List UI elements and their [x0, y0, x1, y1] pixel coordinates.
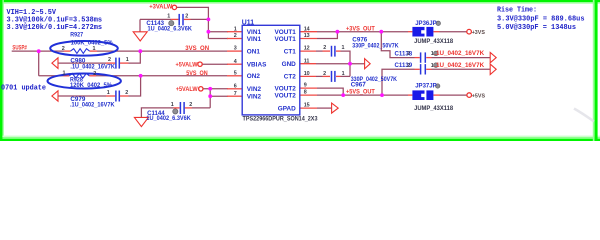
svg-text:JUMP_43X118: JUMP_43X118: [414, 105, 453, 112]
svg-text:1: 1: [431, 51, 434, 57]
svg-text:12: 12: [304, 46, 310, 52]
svg-text:2: 2: [407, 63, 410, 69]
svg-text:4: 4: [234, 59, 237, 65]
svg-text:+3VS: +3VS: [472, 30, 485, 36]
svg-text:2: 2: [323, 71, 326, 77]
svg-text:5VS_ON: 5VS_ON: [186, 70, 208, 77]
svg-text:ON2: ON2: [247, 73, 261, 80]
svg-text:0701 update: 0701 update: [1, 84, 46, 92]
svg-text:1: 1: [171, 102, 174, 108]
svg-text:10: 10: [304, 71, 310, 77]
svg-text:R927: R927: [70, 32, 83, 39]
svg-text:Rise Time:: Rise Time:: [497, 7, 537, 15]
svg-text:+5VS_OUT: +5VS_OUT: [346, 89, 375, 96]
svg-text:3.3V@330pF = 889.68us: 3.3V@330pF = 889.68us: [497, 15, 585, 23]
svg-text:1: 1: [107, 90, 110, 96]
svg-text:2: 2: [125, 90, 128, 96]
svg-text:VIN2: VIN2: [247, 86, 262, 93]
svg-text:1: 1: [63, 71, 66, 77]
svg-text:VOUT1: VOUT1: [274, 36, 296, 43]
svg-text:7: 7: [234, 91, 237, 97]
svg-text:15: 15: [304, 103, 310, 109]
svg-text:3.3V@120k/0.1uF=4.272ms: 3.3V@120k/0.1uF=4.272ms: [7, 24, 103, 32]
svg-text:+3VS_OUT: +3VS_OUT: [346, 26, 375, 33]
svg-text:VIN2: VIN2: [247, 94, 262, 101]
svg-text:13: 13: [304, 33, 310, 39]
svg-text:1: 1: [234, 26, 237, 32]
svg-text:GPAD: GPAD: [278, 105, 296, 112]
svg-text:VBIAS: VBIAS: [247, 62, 267, 69]
svg-text:U11: U11: [242, 20, 254, 27]
svg-text:120K_0402_5%: 120K_0402_5%: [70, 82, 112, 89]
svg-text:2: 2: [407, 51, 410, 57]
svg-text:2: 2: [234, 33, 237, 39]
svg-text:8: 8: [304, 90, 307, 96]
svg-text:.1U_0402_16V7K: .1U_0402_16V7K: [70, 101, 115, 108]
svg-text:C967: C967: [351, 81, 366, 88]
svg-text:SUSP#: SUSP#: [12, 45, 27, 52]
svg-text:+5VALW: +5VALW: [176, 86, 198, 93]
svg-text:+3VALW: +3VALW: [149, 4, 172, 11]
svg-text:14: 14: [304, 26, 310, 32]
svg-text:2: 2: [323, 45, 326, 51]
svg-text:6: 6: [234, 83, 237, 89]
svg-text:2: 2: [189, 102, 192, 108]
svg-text:1: 1: [431, 63, 434, 69]
svg-text:JP37JP: JP37JP: [415, 83, 437, 90]
svg-text:2: 2: [108, 57, 111, 63]
svg-text:1: 1: [342, 71, 345, 77]
svg-text:1U_0402_6.3V6K: 1U_0402_6.3V6K: [146, 115, 191, 122]
svg-text:VIN1: VIN1: [247, 36, 262, 43]
svg-text:ON1: ON1: [247, 48, 261, 55]
svg-text:GND: GND: [282, 61, 297, 68]
svg-text:VOUT2: VOUT2: [274, 92, 296, 99]
svg-text:.1U_0402_16V7K: .1U_0402_16V7K: [434, 62, 484, 69]
svg-text:CT2: CT2: [284, 74, 297, 81]
svg-text:VOUT2: VOUT2: [274, 85, 296, 92]
svg-text:3VS_ON: 3VS_ON: [185, 45, 209, 52]
svg-text:1: 1: [342, 45, 345, 51]
svg-text:JUMP_43X118: JUMP_43X118: [414, 38, 453, 45]
svg-text:5.0V@330pF = 1348us: 5.0V@330pF = 1348us: [497, 24, 576, 32]
svg-text:.1U_0402_16V7K: .1U_0402_16V7K: [434, 50, 484, 57]
svg-text:330P_0402_50V7K: 330P_0402_50V7K: [352, 42, 399, 49]
svg-text:JP36JP: JP36JP: [415, 20, 437, 27]
svg-text:11: 11: [304, 58, 310, 64]
svg-text:1: 1: [126, 57, 129, 63]
svg-text:+5VS: +5VS: [472, 93, 485, 99]
svg-text:1: 1: [93, 46, 96, 52]
svg-text:3: 3: [234, 46, 237, 52]
svg-text:CT1: CT1: [284, 48, 297, 55]
svg-text:5: 5: [234, 70, 237, 76]
svg-text:2: 2: [93, 71, 96, 77]
svg-text:2: 2: [62, 46, 65, 52]
svg-text:9: 9: [304, 83, 307, 89]
svg-text:1: 1: [167, 13, 170, 19]
svg-text:TPS22966DPUR_SON14_2X3: TPS22966DPUR_SON14_2X3: [243, 116, 318, 123]
svg-text:1U_0402_6.3V6K: 1U_0402_6.3V6K: [148, 25, 193, 32]
svg-text:2: 2: [185, 13, 188, 19]
svg-text:+5VALW: +5VALW: [176, 61, 198, 68]
svg-text:.1U_0402_16V7K: .1U_0402_16V7K: [70, 63, 115, 70]
